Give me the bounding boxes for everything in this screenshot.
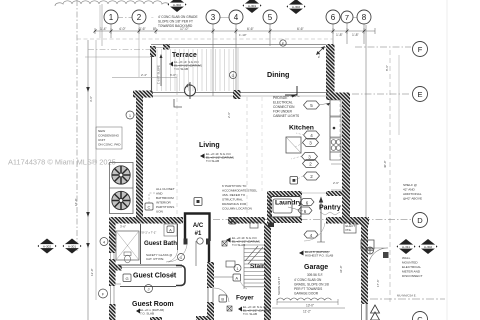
wall stub bottom foyer [196,316,214,320]
svg-text:6: 6 [331,13,336,22]
kitchen sink dot [333,127,336,130]
dimension line: secondary y39 [77,38,333,40]
diamond callout bottom-left 2 [63,239,82,254]
svg-text:Foyer: Foyer [236,295,254,302]
grid bubble D [413,213,428,228]
wall: terrace left edge [151,56,153,95]
guest bath wall [140,224,142,264]
svg-text:42" AND: 42" AND [403,188,416,192]
note: garage elevation [299,250,333,258]
svg-text:ON CONC. PAD: ON CONC. PAD [98,143,121,147]
svg-text:40'-0": 40'-0" [383,160,387,168]
wire: stair left edge [243,244,245,289]
dimension line: main top string y31 [95,28,375,34]
tag: B square living [194,198,202,206]
slope lines terrace [157,49,234,91]
wall: living west wall [136,98,143,218]
tag: meter circle [367,247,374,254]
svg-text:T.O SLAB: T.O SLAB [232,243,245,247]
svg-text:2'-6": 2'-6" [333,181,339,185]
svg-text:CONNECTION: CONNECTION [273,105,295,109]
stair break line [245,246,263,264]
wire: hexagon dashed leaders kitchen [291,133,304,181]
svg-text:1'-10": 1'-10" [239,33,247,37]
tag: B square foyer [219,295,227,302]
svg-text:METER AND: METER AND [402,270,421,274]
svg-text:Laundry: Laundry [275,200,302,207]
note: cabinet lights [273,96,299,118]
svg-text:1: 1 [109,13,114,22]
svg-text:4SS. REFER TO: 4SS. REFER TO [222,193,246,197]
svg-text:J: J [148,287,150,292]
svg-text:ACCOMMODATE STEEL: ACCOMMODATE STEEL [222,189,257,193]
meter box small [383,252,389,258]
bath hall divider wall [177,224,179,250]
wire: left dash-dot grid line [76,0,78,252]
svg-text:E: E [417,90,422,99]
svg-text:F.0'-1" x 7'-1": F.0'-1" x 7'-1" [140,231,156,235]
tag: circle left F [99,289,108,298]
small box on stair wall [250,222,258,228]
dimension labels top [100,27,360,37]
grid bubble 3 [206,10,220,96]
svg-text:ADDITIONAL: ADDITIONAL [403,192,422,196]
stair up arrow [317,197,325,243]
svg-text:4' CONC SLAB ON GRADE: 4' CONC SLAB ON GRADE [158,15,198,19]
svg-text:SLOPE ON 1/8" PER FT: SLOPE ON 1/8" PER FT [158,20,193,24]
svg-text:Guest Room: Guest Room [132,301,174,308]
wall: small block top [163,44,170,50]
wire: left vertical dim line x96 [95,40,97,300]
svg-text:A/C: A/C [193,223,204,229]
note: foyer elevation [238,305,271,316]
wire: right dashed grid x390 [389,50,391,302]
xbox mark 2 [227,306,232,311]
tag: B square laundry top [290,177,298,185]
svg-text:Living: Living [199,142,220,149]
xbox mark 1 [222,241,227,246]
svg-text:12'-0": 12'-0" [90,268,94,276]
svg-text:A-302: A-302 [292,5,301,9]
svg-text:A: A [235,276,238,281]
wall: block on living top (x230) [233,90,241,99]
note: wall mounted meter [402,256,423,278]
svg-text:5: 5 [268,13,273,22]
small box near foyer top [226,261,235,267]
guest bath toilet [124,252,131,263]
svg-text:ALL CLOSET: ALL CLOSET [156,187,175,191]
svg-text:2'-6": 2'-6" [227,112,231,118]
wall: A/C closet [185,214,210,242]
tag: circle left 1 [100,238,108,246]
svg-text:T.O. SLAB: T.O. SLAB [174,67,188,71]
svg-text:4: 4 [234,13,239,22]
hex callout 5 [304,101,331,109]
svg-text:3'-6": 3'-6" [120,225,126,229]
svg-text:6'-0": 6'-0" [170,73,176,77]
warning triangles [371,305,380,320]
note: stair elevation [226,236,260,247]
grid bubble 1 [104,10,118,38]
wall: terrace left corner block [150,46,156,57]
svg-text:4'-0": 4'-0" [119,27,127,31]
svg-text:PARTITIONS: PARTITIONS [156,205,174,209]
note: terrace elevation [169,60,202,71]
wall: central south wall (guest room / foyer) [207,262,214,288]
tag: circle on west wall [126,111,139,119]
wire: bubble connector 1-2 [118,17,132,19]
grid bubble 8 [357,10,371,44]
condensing unit fan 2 [112,191,130,209]
terrace dim line 2'-4" [112,77,177,79]
door: garage service door arc [369,248,388,262]
svg-text:6'-6": 6'-6" [297,27,305,31]
wire: hex 6 leader [288,207,303,211]
svg-text:T.O. SLAB: T.O. SLAB [243,312,257,316]
wall: closet top wall [109,265,122,271]
svg-text:NEW: NEW [98,129,105,133]
svg-text:6' PARTITION TO: 6' PARTITION TO [222,184,247,188]
wall: laundry west wall [267,196,272,217]
dimension tick slashes [94,30,366,33]
svg-text:3: 3 [211,13,216,22]
laundry floor drain box [268,223,274,228]
kitchen cooktop box [330,138,341,152]
laundry counter box [273,199,292,213]
svg-text:Kitchen: Kitchen [289,125,314,132]
door: stair door arc [304,223,325,241]
svg-text:F: F [418,45,423,54]
svg-text:A-311: A-311 [402,245,410,249]
note: guest room elevation [136,308,164,316]
kitchen appliance box 2 [330,117,341,137]
wall: closet end cap [176,266,185,286]
svg-text:7: 7 [345,13,349,22]
wall: pantry top wall [326,191,344,196]
laundry room inner outline [270,197,301,218]
kitchen counter edge [329,99,331,160]
note: garage slab [294,278,329,296]
svg-text:B: B [221,297,224,302]
svg-text:T.O. SLAB: T.O. SLAB [140,312,154,316]
door: bath door arc [166,250,178,262]
condensing unit fan 1 [110,163,134,214]
top-left construction line x100 [99,5,101,38]
wire: garage right wall lines to bottom [361,304,363,320]
diamond callout bottom-left 1 [38,239,57,254]
wire: C leader [149,193,156,203]
door leaf line [195,241,197,266]
svg-text:@42" ABOVE: @42" ABOVE [403,197,422,201]
wire: grid stem x102 [101,4,103,46]
wire: living dashed gridline x247 [246,97,248,215]
diamond callout top 1 [168,0,187,12]
wall: closet bottom line [120,286,176,288]
hex callout 4 [304,131,320,139]
svg-text:16'-0": 16'-0" [74,198,78,206]
svg-text:C: C [417,315,423,320]
hex callout 2b [304,172,320,180]
diamond callout top 2 [243,0,262,13]
wall: top wall double line [151,44,331,46]
hex callout 4b [304,231,318,238]
wall: laundry/pantry divider [300,196,302,216]
revision cloud top-left [55,1,170,6]
guest bath shower [116,231,139,260]
wall stub bottom guest room [150,317,162,320]
svg-text:COLUMN LOCATION: COLUMN LOCATION [222,207,252,211]
svg-text:8: 8 [362,13,367,22]
svg-text:A-302: A-302 [173,3,182,7]
svg-text:GRADE, SLOPE ON 1/8: GRADE, SLOPE ON 1/8 [294,283,329,287]
diamond callout bottom-right 2 [419,239,438,254]
svg-text:G: G [125,276,128,281]
wire: kitchen note leader corner [285,86,298,98]
svg-text:ELECTRICAL: ELECTRICAL [273,101,293,105]
svg-text:1'-4": 1'-4" [100,27,108,31]
tag: G square closet [123,274,131,282]
grid bubble 5 [263,10,277,46]
wall: jog to garage corner [349,217,369,225]
wall: pantry bottom wall [326,217,350,224]
svg-text:11'-2": 11'-2" [303,310,311,314]
note: living elevation [200,152,234,163]
grid bubble 7 [341,11,353,44]
kitchen lower box [330,152,341,160]
svg-text:BATHROOM: BATHROOM [156,196,174,200]
tag: circle E6 dining top [280,40,286,46]
svg-text:6'-6": 6'-6" [247,27,255,31]
hex callout 6b [298,207,312,214]
dining corner double arrow [317,47,324,54]
pantry shelf lines [331,163,343,165]
note: 6' partition [222,184,257,211]
svg-text:CONDENSING: CONDENSING [98,134,120,138]
svg-text:PNL: PNL [346,228,352,232]
svg-text:HIGHEST P.O. SLAB: HIGHEST P.O. SLAB [305,254,333,258]
svg-text:4: 4 [103,241,105,245]
tag: square on wall D line [229,218,236,225]
svg-text:A: A [169,228,172,233]
svg-text:1'-6 FT SLOPE: 1'-6 FT SLOPE [157,65,161,84]
faint right edge line [446,0,448,320]
wall: garage west wall [264,223,271,320]
svg-text:8'-6": 8'-6" [385,65,389,71]
tag: J circle [145,285,153,293]
svg-text:Garage: Garage [304,264,328,271]
dim tick lines left of terrace block [88,49,150,51]
wall: right wall mid (x342) [342,100,350,219]
svg-text:D: D [417,216,423,225]
grid bubble 4 [229,10,243,96]
tag: A square closet [233,274,241,281]
svg-text:Pantry: Pantry [319,205,341,212]
svg-text:CAT. II/TYPE: CAT. II/TYPE [146,257,163,261]
pantry shelf zigzag [320,212,340,215]
door jambs A/C closet [184,239,188,245]
wire: D grid leader [213,219,411,221]
wall: garage right wall [361,224,368,304]
stair treads [244,245,264,287]
svg-text:3'-6": 3'-6" [89,96,93,102]
wire: note leader [273,96,300,98]
wire: left vertical dim line x88 [87,40,89,320]
tag: circle 1 closet [234,265,241,272]
svg-text:2'-6": 2'-6" [139,27,147,31]
dashed grid kitchen x262 [261,97,263,191]
svg-text:309.56 S.F.: 309.56 S.F. [307,273,323,277]
door: foyer door arc [214,288,229,302]
window: left wall window lines [110,253,112,259]
svg-text:1: 1 [129,114,131,118]
wall: living NW corner horizontal [133,91,153,98]
svg-text:Guest Closet: Guest Closet [133,273,177,280]
svg-text:GARAGE DOOR: GARAGE DOOR [294,292,319,296]
svg-text:1'-8": 1'-8" [336,33,344,37]
tag: circle terrace right [230,72,237,79]
svg-text:34'-0": 34'-0" [339,265,343,273]
note: closet partitions [156,187,175,214]
elect panel unit [361,240,374,249]
diamond callout top 3 [287,0,306,14]
svg-text:MU-NM/CSA E.: MU-NM/CSA E. [397,294,417,298]
wall: laundry bottom wall [267,217,302,224]
note: conc slab top [151,15,198,28]
svg-text:INTERIOR: INTERIOR [156,201,172,205]
svg-text:Guest Bath: Guest Bath [144,240,177,247]
svg-text:17'-6": 17'-6" [376,279,380,287]
diamond callout bottom-right 1 [397,239,416,254]
svg-text:A-301: A-301 [248,4,257,8]
svg-text:DISCONNECT: DISCONNECT [402,274,423,278]
svg-text:UON: UON [156,210,163,214]
svg-text:SHELF @: SHELF @ [403,183,417,187]
kitchen appliance box 1 [330,100,341,116]
hex callout 3b [302,153,318,161]
note: condensing unit [96,127,122,149]
note: shelf [403,183,422,201]
svg-text:#1: #1 [195,231,202,237]
svg-text:G: G [232,74,235,78]
door frame marks living top [174,99,182,107]
wire: bubble connector 3-4 [220,17,229,19]
svg-text:DRAWINGS FOR: DRAWINGS FOR [222,202,247,206]
svg-text:C: C [148,205,151,210]
hex callout 2 [303,160,319,168]
svg-text:2: 2 [137,13,142,22]
wall: right wall upper (x327) [326,44,335,94]
note: slope arrow vertical [157,54,163,86]
svg-text:Dining: Dining [267,70,289,79]
wire: closet leader to wall [214,276,233,278]
svg-text:AND: AND [156,192,163,196]
svg-text:UNIT: UNIT [98,138,105,142]
svg-text:SLOPE 1/4 FT: SLOPE 1/4 FT [277,277,281,295]
dimension line: garage bottom [272,299,345,308]
svg-text:FOR UNDER: FOR UNDER [273,110,293,114]
grid bubble 6 [326,10,340,46]
svg-text:PER FT TOWARDS: PER FT TOWARDS [294,287,322,291]
wire: bottom dash-dot meter line [370,298,445,300]
wire: bubble connector 6-7-8 [340,17,341,19]
window sill marks guest room [115,267,121,269]
hex callout 6 [300,199,314,206]
svg-text:5'-2": 5'-2" [317,52,321,58]
column: circle column at living top [185,82,196,99]
svg-text:TOWARDS BACKYARD: TOWARDS BACKYARD [158,24,193,28]
svg-text:A-301: A-301 [68,245,77,249]
wall: terrace bottom / living top thin lines [152,92,330,94]
note: safety glass [146,253,172,261]
svg-text:A11744378 © Miami MLS® 2025: A11744378 © Miami MLS® 2025 [8,158,116,167]
grid bubble C (cut at bottom) [413,312,428,320]
wall: laundry top wall [267,191,302,196]
svg-text:MOUNTED: MOUNTED [402,261,418,265]
tag: circle 1 bath [178,254,185,261]
svg-text:A-302: A-302 [424,245,433,249]
svg-text:STRUCTURAL: STRUCTURAL [222,198,243,202]
svg-text:1'-8": 1'-8" [352,33,360,37]
svg-text:←: ← [151,15,154,19]
tag: AC circle [197,238,203,244]
kitchen cooktop burners [331,140,341,151]
svg-text:T.O SLAB: T.O SLAB [206,159,219,163]
wire: A tag leader [240,281,247,289]
wall: central wall below A/C closet [208,241,210,265]
wire: F grid dash-dot line [355,46,411,48]
wire: right vertical dim x399 [398,55,400,135]
kitchen island [286,137,301,153]
garage slab scallop line [277,298,331,300]
hex callout 3 [303,139,319,147]
dim arrows on x88 line [86,87,90,248]
tag: C square [145,203,153,210]
wire: E grid dash-dot line [352,93,411,95]
tag: A square bath [167,226,174,233]
grid bubble 2 [132,10,146,77]
strikethrough marks on datum notes [174,65,331,310]
svg-text:WALL: WALL [402,256,411,260]
grid bubble E [413,87,428,102]
wall: right wall jog horizontal [326,93,350,101]
elect panel box [344,222,356,233]
guest bath vanity [164,224,177,236]
svg-text:13'-0": 13'-0" [306,304,314,308]
room label: A/C #1 [193,223,204,237]
svg-text:ELECTRICAL: ELECTRICAL [402,265,421,269]
wire: living dashed gridline x177 [176,98,178,216]
wall: lower main horizontal wall segments y217 [109,217,183,224]
wall: terrace/dining divider [237,48,239,92]
svg-text:4' CONC SLAB ON: 4' CONC SLAB ON [294,278,322,282]
door: A/C door swing [168,245,187,262]
wall: left exterior wall lower [109,223,116,253]
svg-text:CABINET LIGHTS: CABINET LIGHTS [273,114,299,118]
wire: right vertical line x366 [365,25,367,320]
grid bubble F [413,42,428,57]
svg-text:2'-4": 2'-4" [141,73,147,77]
svg-text:A-302: A-302 [43,245,52,249]
